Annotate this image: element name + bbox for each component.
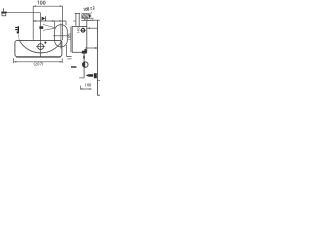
neck right edge below cap: [86, 21, 88, 27]
108±2 note: [83, 6, 95, 11]
bottom (10) dimension: [79, 86, 81, 90]
dimension (207): arrowheads: [14, 61, 63, 62]
right tick y80.5: [97, 80, 100, 82]
clamp connector symbol above tank: [15, 26, 19, 33]
hatched filler cap: [82, 14, 89, 18]
hose elbow circle: [82, 62, 88, 68]
end view crosshair horizontal: [53, 35, 69, 37]
drain centerline: [83, 54, 85, 78]
front view body: [72, 26, 87, 52]
small dot on tank top edge: [44, 42, 46, 44]
filler cap symbol (circle with crosshair): [38, 44, 44, 50]
right vertical dimension line: [98, 20, 101, 95]
filler neck front view: [75, 13, 77, 26]
corner leader down to end view: [65, 21, 67, 25]
pump fitting top-left: [1, 12, 7, 14]
dimension 100: extension line left: [32, 6, 34, 40]
dimension 100: dimension line: [33, 5, 62, 7]
dimension 100: text: [38, 1, 46, 4]
dimension 100: arrowheads: [33, 6, 62, 7]
dimension (207): dimension line: [14, 61, 63, 63]
tank end view (stadium): [55, 25, 68, 47]
rotated (10) label: [68, 34, 71, 40]
rotated 140 label: [77, 28, 79, 33]
right top dimension line: [91, 19, 100, 21]
weld flag triangle on centerline: [42, 17, 46, 21]
dimension (207): extension lines: [13, 58, 15, 63]
front view flange line: [70, 26, 72, 52]
tank saddle curve: [19, 40, 62, 53]
drain fitting below body: [82, 51, 87, 54]
line under cap: [81, 17, 93, 19]
bottom leader: [79, 77, 84, 79]
hose leader horizontal: [7, 12, 41, 14]
second dimension line: [33, 20, 66, 22]
bracket under end view: [67, 45, 72, 56]
40 label: [84, 18, 87, 20]
second line under cap: [81, 20, 91, 22]
right dim y28: [87, 27, 97, 29]
right dim y48: [85, 47, 98, 49]
hose stub dash: [71, 66, 76, 67]
filler cap crosshair horizontal: [36, 46, 45, 48]
leader arrowhead at cap: [89, 15, 91, 18]
end view crosshair vertical: [60, 23, 62, 48]
bottom right fitting: [86, 74, 89, 77]
flow arrow into end view: [43, 24, 55, 30]
mounting hole on body: [80, 29, 86, 31]
tank body top view: [15, 40, 62, 56]
extension to stadium left shoulder: [54, 21, 56, 28]
second dimension arrowheads: [33, 20, 62, 21]
centerline vertical through filler: [40, 13, 42, 57]
dimension 100: extension line right: [61, 6, 63, 40]
dimension (207): text: [34, 62, 43, 65]
